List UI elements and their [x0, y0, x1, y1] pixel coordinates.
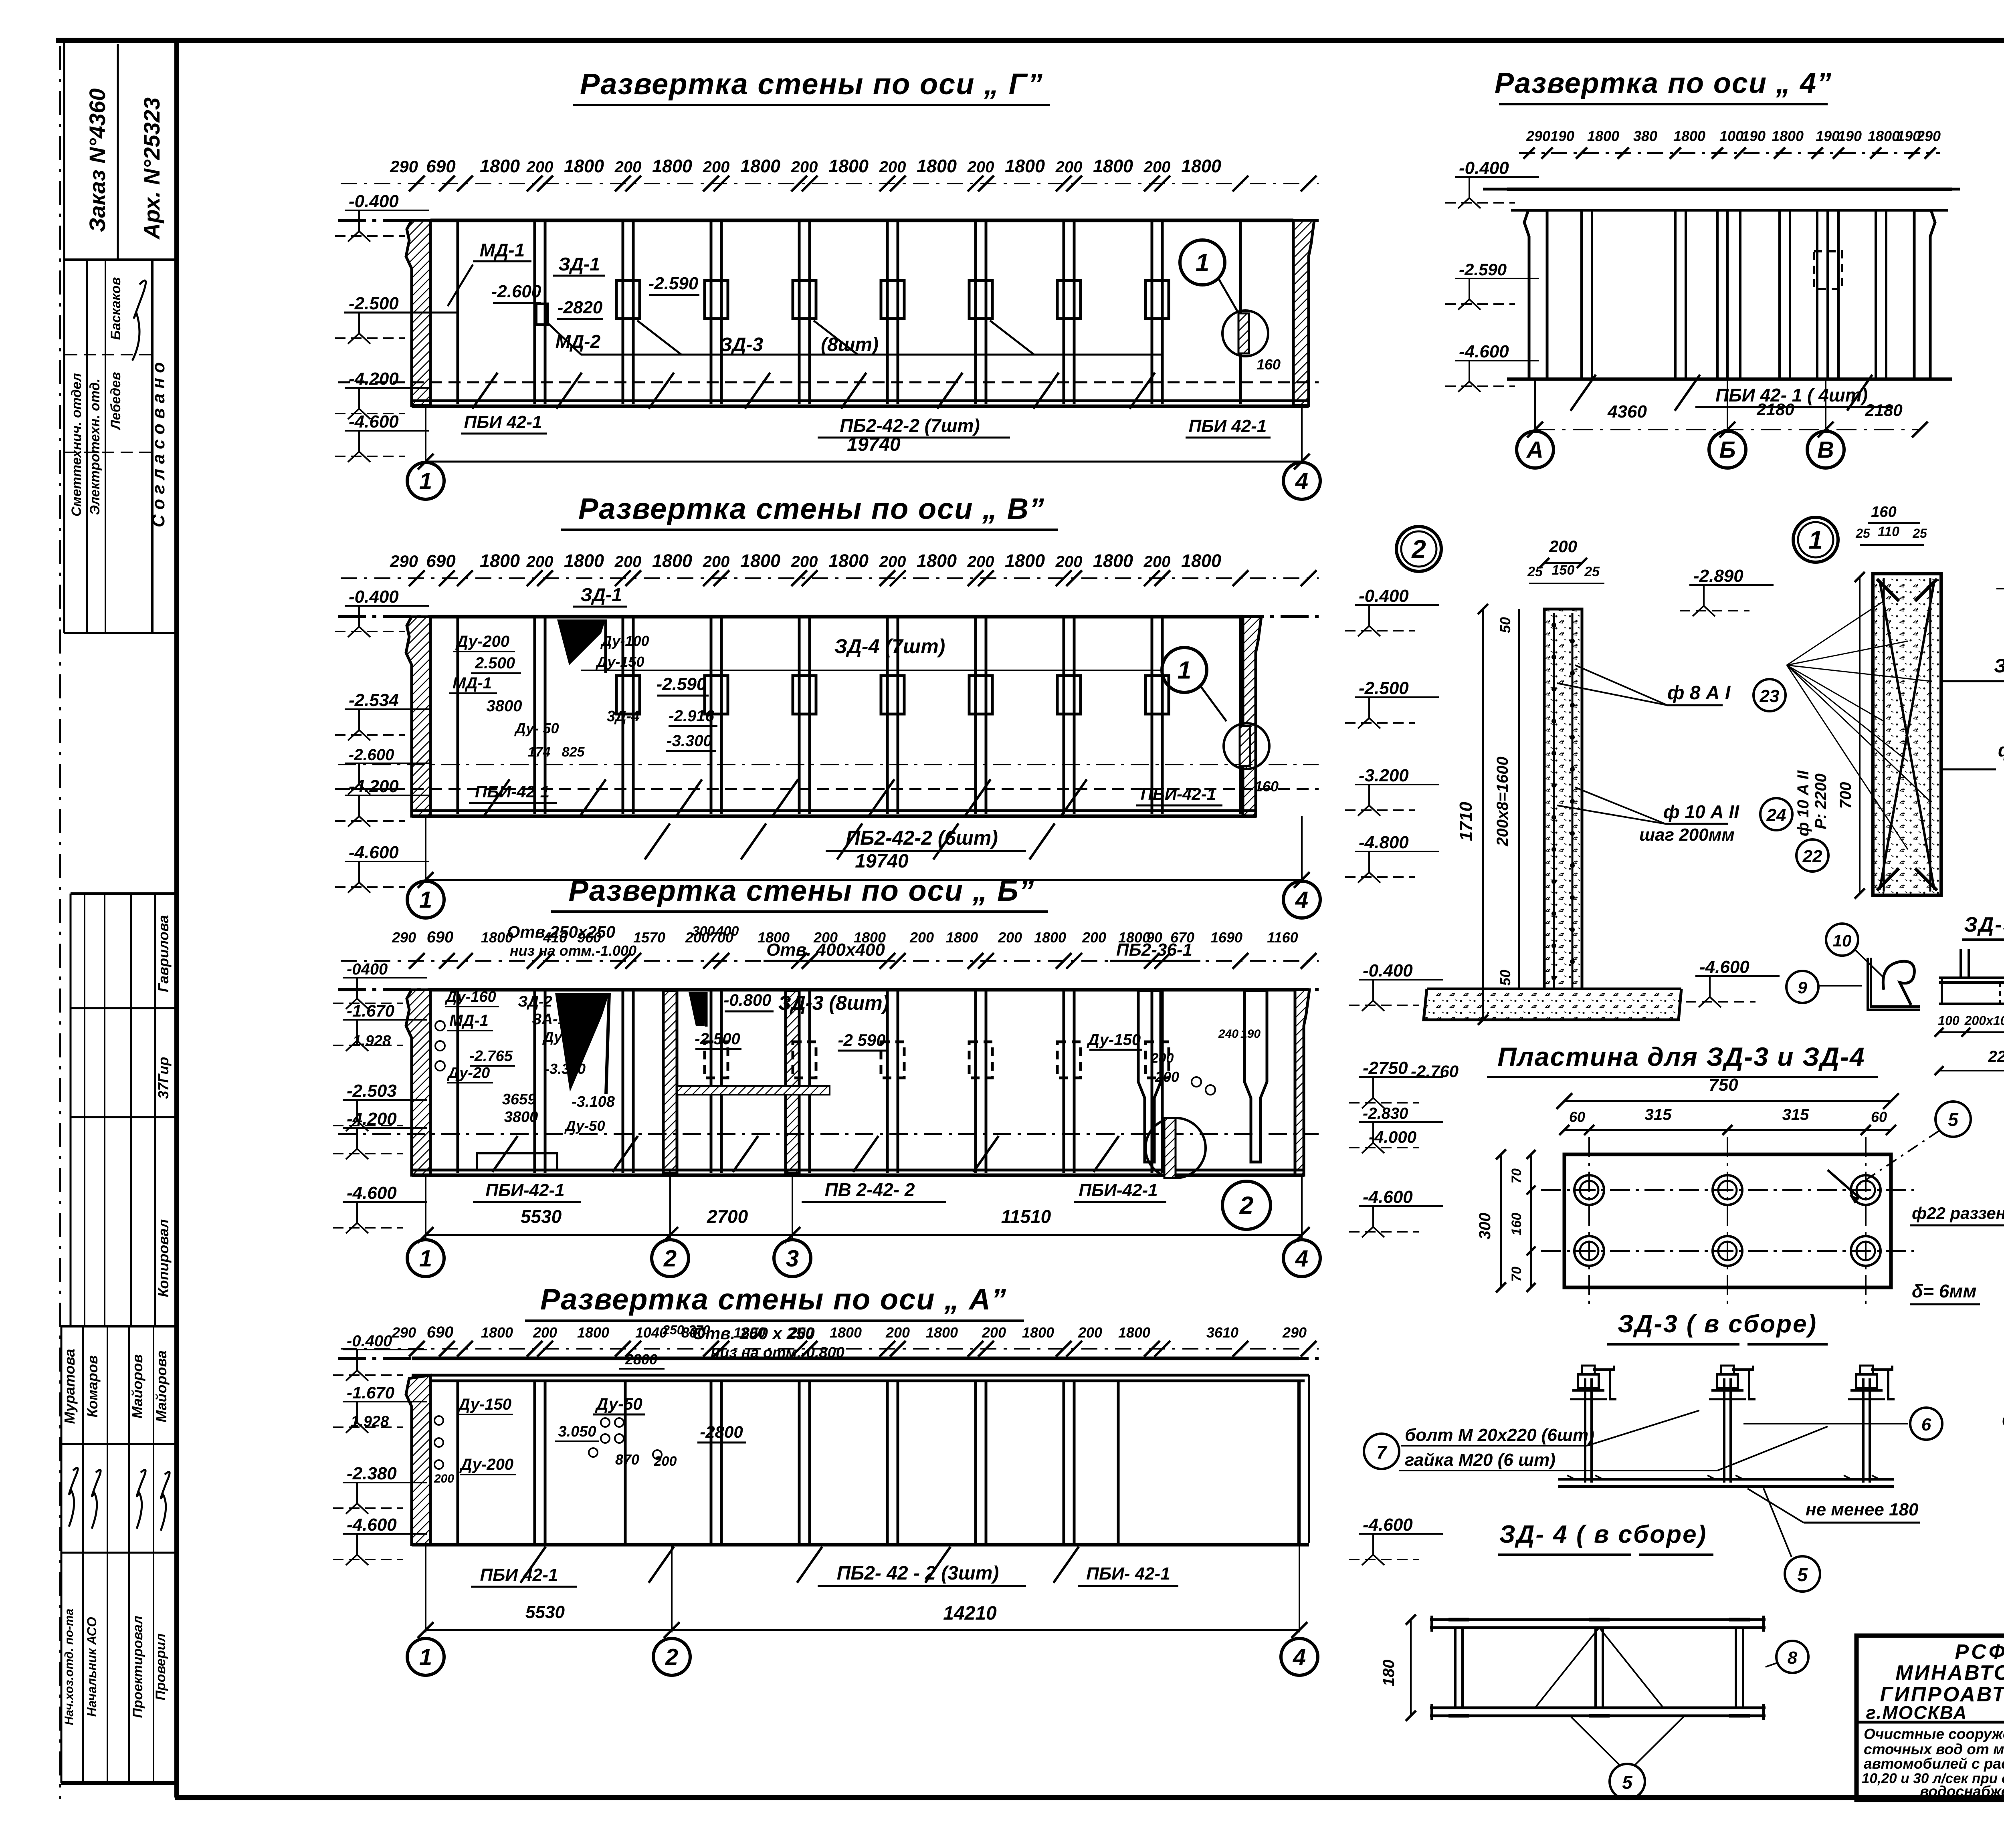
svg-text:190: 190: [1741, 128, 1766, 144]
svg-text:-4.200: -4.200: [347, 1109, 397, 1129]
svg-text:Ду-200: Ду-200: [455, 633, 509, 650]
svg-text:ЗД-1: ЗД-1: [558, 254, 600, 274]
svg-text:174: 174: [528, 744, 551, 760]
svg-text:1800: 1800: [1034, 929, 1066, 946]
svg-text:-2.890: -2.890: [1693, 566, 1743, 586]
svg-text:-2.590: -2.590: [648, 274, 699, 293]
svg-text:Комаров: Комаров: [84, 1355, 101, 1417]
svg-text:2180: 2180: [1865, 401, 1902, 420]
svg-text:Б: Б: [1719, 437, 1735, 463]
svg-text:1800: 1800: [564, 551, 604, 571]
svg-text:2: 2: [1411, 535, 1426, 563]
svg-text:-2.916: -2.916: [669, 707, 714, 725]
svg-text:ПБ2- 42 - 2 (3шт): ПБ2- 42 - 2 (3шт): [837, 1563, 999, 1584]
svg-text:1800: 1800: [1868, 128, 1900, 144]
svg-text:-4.200: -4.200: [349, 777, 399, 796]
svg-text:-2.600: -2.600: [349, 746, 394, 764]
svg-text:5: 5: [1622, 1772, 1633, 1793]
svg-text:Ду-150: Ду-150: [457, 1396, 511, 1413]
svg-text:δ= 6мм: δ= 6мм: [1912, 1281, 1976, 1301]
svg-text:-3.300: -3.300: [545, 1061, 586, 1077]
svg-text:-3.200: -3.200: [1359, 766, 1409, 785]
svg-text:Развертка стены по оси „ Б”: Развертка стены по оси „ Б”: [568, 874, 1034, 907]
svg-text:690: 690: [426, 157, 456, 176]
svg-text:Очистные сооружения для: Очистные сооружения для: [1864, 1726, 2004, 1742]
svg-text:-3.300: -3.300: [667, 732, 712, 750]
svg-text:2: 2: [665, 1644, 678, 1670]
svg-text:1800: 1800: [917, 551, 957, 571]
left stamp column: [64, 258, 175, 261]
svg-text:ПБ2-36-1: ПБ2-36-1: [1116, 940, 1192, 960]
svg-text:160: 160: [1257, 356, 1281, 373]
svg-text:3659: 3659: [502, 1091, 536, 1108]
svg-text:200: 200: [879, 553, 906, 571]
svg-text:6: 6: [1921, 1415, 1931, 1434]
svg-text:ПБИ 42-1: ПБИ 42-1: [464, 412, 542, 432]
svg-text:1800: 1800: [652, 551, 692, 571]
svg-text:200: 200: [533, 1324, 557, 1341]
svg-text:290: 290: [390, 157, 418, 176]
svg-text:ПБИ-42 1: ПБИ-42 1: [475, 782, 549, 801]
svg-text:А: А: [1526, 437, 1543, 463]
svg-text:290: 290: [392, 929, 416, 946]
svg-text:-4.600: -4.600: [347, 1515, 397, 1535]
svg-text:Ду-50: Ду-50: [595, 1394, 642, 1413]
svg-text:2180: 2180: [1756, 400, 1794, 419]
svg-text:ф 10 А II: ф 10 А II: [1663, 801, 1739, 822]
svg-text:4: 4: [1295, 1245, 1308, 1271]
svg-text:1160: 1160: [1267, 929, 1298, 946]
svg-text:Ду-20: Ду-20: [447, 1065, 490, 1081]
svg-text:ПБИ-42-1: ПБИ-42-1: [1079, 1180, 1158, 1200]
svg-text:25: 25: [1527, 564, 1543, 579]
svg-text:1: 1: [419, 468, 432, 494]
svg-text:-4.200: -4.200: [349, 369, 399, 389]
svg-text:70: 70: [1509, 1267, 1524, 1282]
svg-text:Развертка стены по оси „ В”: Развертка стены по оси „ В”: [578, 492, 1045, 525]
svg-text:-0.400: -0.400: [347, 1332, 392, 1350]
svg-text:1800: 1800: [740, 156, 780, 176]
svg-text:5530: 5530: [525, 1602, 565, 1622]
svg-text:Ду- 50: Ду- 50: [514, 720, 559, 736]
svg-text:250: 250: [662, 1323, 684, 1337]
svg-text:200: 200: [885, 1324, 910, 1341]
svg-text:200: 200: [654, 1454, 677, 1469]
svg-text:200: 200: [1055, 553, 1083, 571]
svg-text:2: 2: [663, 1245, 677, 1271]
svg-text:ф22 раззенковать: ф22 раззенковать: [1912, 1204, 2004, 1223]
ЗД-5 detail: [1826, 924, 1858, 956]
svg-text:Арх. N°25323: Арх. N°25323: [139, 97, 164, 240]
svg-text:19740: 19740: [847, 434, 901, 455]
svg-text:200: 200: [1155, 1069, 1179, 1085]
svg-text:8: 8: [1788, 1648, 1798, 1668]
title block: [1857, 1636, 2004, 1800]
svg-text:200: 200: [909, 929, 934, 946]
svg-text:24: 24: [1766, 805, 1786, 825]
svg-text:3800: 3800: [487, 697, 522, 715]
svg-text:-2.760: -2.760: [1411, 1062, 1459, 1081]
svg-text:1800: 1800: [1005, 156, 1045, 176]
svg-text:Заказ N°4360: Заказ N°4360: [85, 89, 110, 232]
svg-text:2: 2: [1239, 1192, 1253, 1220]
svg-text:Ду-160: Ду-160: [444, 989, 496, 1005]
svg-text:ПБ2-42-2 (7шт): ПБ2-42-2 (7шт): [840, 415, 980, 436]
svg-text:200: 200: [791, 158, 818, 176]
svg-text:РСФСР: РСФСР: [1955, 1640, 2004, 1664]
svg-text:1.928: 1.928: [351, 1413, 389, 1430]
svg-text:5530: 5530: [521, 1206, 562, 1227]
svg-text:-1.670: -1.670: [347, 1383, 394, 1402]
svg-text:-4.600: -4.600: [349, 412, 399, 432]
svg-text:-0.400: -0.400: [1359, 586, 1409, 606]
svg-text:50: 50: [1497, 617, 1513, 633]
svg-text:-2.590: -2.590: [1459, 260, 1507, 279]
svg-text:1570: 1570: [633, 929, 665, 946]
svg-text:700: 700: [1837, 782, 1855, 809]
svg-text:1: 1: [419, 1644, 432, 1670]
svg-text:2200: 2200: [1988, 1048, 2004, 1065]
svg-text:-4.600: -4.600: [1363, 1515, 1413, 1535]
svg-text:11510: 11510: [1001, 1206, 1051, 1227]
svg-text:200: 200: [614, 553, 642, 571]
svg-text:-0.800: -0.800: [723, 991, 771, 1009]
svg-text:3800: 3800: [504, 1109, 538, 1126]
svg-text:Начальник АСО: Начальник АСО: [85, 1617, 99, 1717]
svg-text:ЗД-4 (7шт): ЗД-4 (7шт): [834, 635, 945, 658]
svg-text:750: 750: [1709, 1075, 1738, 1095]
svg-text:Лебедев: Лебедев: [108, 372, 123, 431]
svg-text:С о г л а с о в а н о: С о г л а с о в а н о: [149, 362, 168, 527]
svg-text:1710: 1710: [1456, 802, 1476, 841]
svg-text:200: 200: [703, 158, 730, 176]
svg-text:Копировал: Копировал: [155, 1219, 172, 1297]
svg-text:200: 200: [879, 158, 906, 176]
svg-text:Майоров: Майоров: [129, 1354, 145, 1418]
svg-text:25: 25: [1584, 564, 1600, 579]
svg-text:-2750: -2750: [1363, 1058, 1408, 1078]
svg-text:1800: 1800: [1772, 128, 1804, 144]
svg-text:22: 22: [1802, 847, 1822, 866]
svg-text:1800: 1800: [564, 156, 604, 176]
svg-text:290: 290: [392, 1324, 416, 1341]
svg-text:-2.830: -2.830: [1363, 1105, 1408, 1122]
svg-text:-2.590: -2.590: [657, 674, 707, 694]
svg-text:Сметтехнич. отдел: Сметтехнич. отдел: [69, 373, 84, 516]
svg-text:690: 690: [426, 551, 456, 571]
svg-text:200: 200: [1151, 1051, 1174, 1066]
svg-text:Развертка стены по оси „ Г”: Развертка стены по оси „ Г”: [580, 67, 1043, 101]
svg-text:200: 200: [1078, 1324, 1102, 1341]
svg-text:2.500: 2.500: [475, 654, 515, 672]
svg-text:Отв. 400x400: Отв. 400x400: [766, 940, 885, 960]
svg-text:160: 160: [1509, 1213, 1524, 1236]
svg-text:-4.600: -4.600: [1699, 957, 1749, 977]
svg-text:290: 290: [1282, 1324, 1307, 1341]
svg-text:1800: 1800: [917, 156, 957, 176]
svg-text:Муратова: Муратова: [61, 1349, 78, 1424]
svg-text:Ду-200: Ду-200: [459, 1456, 513, 1473]
svg-text:290: 290: [390, 552, 418, 571]
svg-text:690: 690: [427, 1323, 454, 1341]
svg-text:-3.108: -3.108: [572, 1093, 615, 1110]
svg-text:1800: 1800: [1181, 156, 1221, 176]
svg-text:160: 160: [1871, 504, 1896, 521]
svg-text:МД-1: МД-1: [453, 674, 492, 692]
svg-text:Развертка стены по оси „ А”: Развертка стены по оси „ А”: [540, 1283, 1007, 1316]
svg-text:-2820: -2820: [558, 298, 603, 317]
svg-text:ПБИ 42-1: ПБИ 42-1: [1189, 416, 1267, 436]
svg-text:-0400: -0400: [347, 960, 388, 978]
svg-text:Баскаков: Баскаков: [108, 277, 123, 340]
svg-text:-4.800: -4.800: [1359, 833, 1409, 852]
svg-text:1800: 1800: [926, 1324, 958, 1341]
svg-text:14210: 14210: [943, 1603, 997, 1624]
svg-text:690: 690: [427, 928, 454, 946]
svg-text:автомобилей с расходом: автомобилей с расходом: [1864, 1755, 2004, 1772]
svg-text:240: 240: [1218, 1027, 1238, 1041]
svg-text:60: 60: [1569, 1109, 1585, 1125]
svg-text:водоснабжении.: водоснабжении.: [1920, 1783, 2004, 1800]
svg-text:825: 825: [562, 744, 585, 760]
svg-text:-2.500: -2.500: [1359, 678, 1409, 698]
svg-text:200х10=2000: 200х10=2000: [1964, 1013, 2004, 1028]
svg-text:г.МОСКВА: г.МОСКВА: [1866, 1702, 1967, 1723]
svg-text:100: 100: [1938, 1013, 1960, 1028]
svg-text:болт М 20х220 (6шт): болт М 20х220 (6шт): [1405, 1425, 1594, 1445]
svg-text:3610: 3610: [1206, 1324, 1238, 1341]
ЗД-4 assembled drawing: [1430, 1618, 1766, 1621]
svg-text:-4.000: -4.000: [1369, 1128, 1416, 1146]
svg-text:ЗД-3 ( в сборе): ЗД-3 ( в сборе): [1618, 1310, 1817, 1338]
svg-text:Отв. 250 x 250: Отв. 250 x 250: [692, 1324, 815, 1343]
svg-text:ПБИ-42-1: ПБИ-42-1: [1141, 785, 1216, 803]
svg-text:370: 370: [689, 1323, 710, 1337]
svg-text:2700: 2700: [707, 1206, 748, 1227]
svg-text:1800: 1800: [481, 1324, 513, 1341]
svg-text:-0.400: -0.400: [1459, 158, 1509, 178]
svg-text:37Гир: 37Гир: [155, 1057, 172, 1099]
svg-text:200: 200: [1082, 929, 1106, 946]
svg-text:1800: 1800: [946, 929, 978, 946]
svg-text:4: 4: [1293, 1644, 1306, 1670]
svg-text:ПБ2-42-2 (6шт): ПБ2-42-2 (6шт): [846, 827, 998, 849]
svg-text:870: 870: [615, 1451, 639, 1468]
svg-text:Развертка по оси „ 4”: Развертка по оси „ 4”: [1495, 67, 1832, 99]
svg-text:25: 25: [1912, 526, 1927, 541]
svg-text:200: 200: [614, 158, 642, 176]
svg-text:ЗД-5: ЗД-5: [1964, 913, 2004, 936]
svg-text:не менее 180: не менее 180: [1806, 1500, 1919, 1519]
svg-text:Проектировал: Проектировал: [130, 1616, 145, 1718]
svg-text:-2.500: -2.500: [349, 294, 399, 313]
svg-text:Нач.хоз.отд. по-та: Нач.хоз.отд. по-та: [63, 1609, 76, 1725]
svg-text:ЗД-1: ЗД-1: [580, 584, 622, 605]
svg-text:МД-2: МД-2: [556, 331, 601, 352]
svg-text:Р: 2200: Р: 2200: [1812, 773, 1830, 829]
svg-text:1800: 1800: [740, 551, 780, 571]
svg-text:3Д-4: 3Д-4: [607, 708, 640, 725]
node 1 detail ЗД-1 panel: [1793, 517, 1838, 562]
ЗД-3 assembled drawing: [1584, 1378, 1586, 1483]
svg-text:4360: 4360: [1607, 402, 1647, 422]
svg-text:200: 200: [1549, 537, 1577, 556]
svg-text:-4.600: -4.600: [1363, 1187, 1413, 1207]
svg-text:50: 50: [1497, 970, 1513, 986]
svg-text:19740: 19740: [855, 851, 909, 872]
svg-text:180: 180: [1380, 1660, 1398, 1687]
svg-text:1800: 1800: [1022, 1324, 1054, 1341]
svg-text:(8шт): (8шт): [821, 334, 879, 355]
svg-text:1800: 1800: [652, 156, 692, 176]
svg-text:1: 1: [1178, 657, 1191, 684]
svg-text:-2.600: -2.600: [491, 282, 541, 301]
svg-text:200: 200: [703, 553, 730, 571]
svg-text:-2.500: -2.500: [695, 1030, 740, 1048]
svg-text:190: 190: [1240, 1027, 1261, 1041]
svg-text:Отв.250x250: Отв.250x250: [507, 922, 616, 941]
svg-text:ф 10 А II: ф 10 А II: [1794, 770, 1812, 836]
svg-text:200: 200: [967, 553, 994, 571]
svg-text:низ на отм.-1.000: низ на отм.-1.000: [510, 942, 636, 959]
svg-text:380: 380: [1633, 128, 1657, 144]
svg-text:Ду-50: Ду-50: [564, 1118, 605, 1134]
svg-text:-2.765: -2.765: [469, 1048, 513, 1065]
svg-text:200: 200: [967, 158, 994, 176]
svg-text:60: 60: [1871, 1109, 1887, 1125]
svg-text:Пластина для ЗД-3 и ЗД-4: Пластина для ЗД-3 и ЗД-4: [1497, 1042, 1865, 1071]
svg-text:4: 4: [1295, 468, 1308, 494]
svg-text:-0.400: -0.400: [349, 192, 399, 211]
svg-text:ЗД-3: ЗД-3: [720, 334, 763, 355]
svg-text:1800: 1800: [1181, 551, 1221, 571]
svg-text:10: 10: [1833, 931, 1852, 950]
svg-text:3.050: 3.050: [558, 1423, 596, 1440]
svg-text:ПБИ-42-1: ПБИ-42-1: [485, 1180, 564, 1200]
svg-text:-0.400: -0.400: [1363, 961, 1413, 980]
svg-text:200: 200: [982, 1324, 1006, 1341]
svg-text:1800: 1800: [577, 1324, 609, 1341]
svg-text:23: 23: [1760, 686, 1780, 706]
svg-text:315: 315: [1782, 1106, 1809, 1124]
svg-text:1800: 1800: [828, 156, 869, 176]
svg-text:200x8=1600: 200x8=1600: [1494, 757, 1511, 847]
svg-text:4: 4: [1295, 887, 1308, 913]
svg-text:200: 200: [434, 1472, 454, 1485]
svg-text:МД-1: МД-1: [480, 240, 525, 260]
svg-text:ЗД-2: ЗД-2: [518, 993, 552, 1010]
svg-text:200: 200: [526, 158, 554, 176]
svg-text:1: 1: [1196, 249, 1209, 277]
svg-text:1: 1: [1808, 525, 1823, 554]
svg-text:Ду-150: Ду-150: [1087, 1031, 1141, 1049]
svg-text:ПБИ 42-1: ПБИ 42-1: [480, 1565, 558, 1585]
svg-text:70: 70: [1509, 1168, 1524, 1184]
svg-text:ЗД-3 (8шт): ЗД-3 (8шт): [778, 992, 889, 1014]
svg-text:200: 200: [1143, 553, 1171, 571]
svg-text:1800: 1800: [1005, 551, 1045, 571]
svg-text:290: 290: [1526, 128, 1550, 144]
svg-text:25: 25: [1855, 526, 1871, 541]
svg-text:3: 3: [786, 1245, 799, 1271]
svg-text:1800: 1800: [480, 551, 520, 571]
svg-text:гайка М20 (6 шт): гайка М20 (6 шт): [1405, 1450, 1556, 1470]
svg-text:шаг 200мм: шаг 200мм: [1639, 825, 1735, 845]
svg-text:-0.400: -0.400: [349, 587, 399, 607]
svg-text:1800: 1800: [480, 156, 520, 176]
svg-text:-4.600: -4.600: [1459, 342, 1509, 361]
svg-text:ЗД -5: ЗД -5: [1994, 656, 2004, 677]
svg-text:5: 5: [1948, 1109, 1959, 1130]
svg-text:В: В: [1817, 437, 1834, 463]
node circle 2 marker: [1396, 527, 1441, 571]
svg-text:300: 300: [1476, 1213, 1494, 1240]
svg-text:Гаврилова: Гаврилова: [155, 915, 172, 993]
svg-text:1800: 1800: [1587, 128, 1619, 144]
svg-text:-2.380: -2.380: [347, 1464, 397, 1483]
svg-text:150: 150: [1552, 563, 1575, 578]
svg-text:ф 8 А I: ф 8 А I: [1667, 682, 1731, 704]
svg-text:5: 5: [1797, 1564, 1808, 1585]
svg-text:200: 200: [998, 929, 1022, 946]
svg-text:ЗД- 4 ( в сборе): ЗД- 4 ( в сборе): [1499, 1521, 1707, 1548]
svg-text:190: 190: [1838, 128, 1862, 144]
sheet frame: [56, 38, 2004, 43]
svg-text:110: 110: [1878, 524, 1899, 539]
svg-text:-2.503: -2.503: [347, 1081, 397, 1101]
svg-text:160: 160: [1255, 778, 1279, 795]
svg-text:200: 200: [526, 553, 554, 571]
svg-text:1690: 1690: [1210, 929, 1242, 946]
svg-text:1800: 1800: [830, 1324, 862, 1341]
svg-text:290: 290: [1916, 128, 1941, 144]
svg-text:300: 300: [692, 924, 715, 939]
svg-text:-2.534: -2.534: [349, 690, 399, 710]
svg-text:МИНАВТОТРАНС: МИНАВТОТРАНС: [1895, 1661, 2004, 1685]
svg-text:Сводная ведомость расхода бето: Сводная ведомость расхода бетона и стали…: [2002, 1411, 2004, 1430]
svg-text:ф10 А II: ф10 А II: [1998, 740, 2004, 761]
svg-text:ПБИ- 42-1: ПБИ- 42-1: [1086, 1564, 1170, 1584]
svg-text:200: 200: [1143, 158, 1171, 176]
svg-text:190: 190: [1816, 128, 1840, 144]
svg-text:7: 7: [1376, 1442, 1388, 1463]
svg-text:190: 190: [1550, 128, 1574, 144]
svg-text:Электротехн. отд.: Электротехн. отд.: [87, 379, 103, 515]
svg-text:-2 590: -2 590: [838, 1031, 885, 1049]
svg-text:1.928: 1.928: [353, 1033, 391, 1049]
svg-text:9: 9: [1798, 978, 1807, 997]
svg-text:ПВ 2-42- 2: ПВ 2-42- 2: [825, 1179, 915, 1200]
svg-text:-4.600: -4.600: [347, 1183, 397, 1203]
svg-text:сточных вод от мойки: сточных вод от мойки: [1864, 1741, 2004, 1757]
svg-text:1800: 1800: [1093, 551, 1133, 571]
svg-text:400: 400: [716, 924, 739, 939]
svg-text:100: 100: [1719, 128, 1743, 144]
svg-text:Ду-400: Ду-400: [542, 1029, 591, 1045]
svg-text:Проверил: Проверил: [153, 1633, 168, 1700]
svg-text:-1.670: -1.670: [347, 1001, 394, 1020]
svg-text:200: 200: [1055, 158, 1083, 176]
svg-text:Майорова: Майорова: [153, 1350, 170, 1422]
svg-text:низ на отм.-0.800: низ на отм.-0.800: [711, 1344, 844, 1361]
svg-text:1800: 1800: [1118, 1324, 1150, 1341]
svg-text:315: 315: [1645, 1106, 1672, 1124]
svg-text:1: 1: [419, 887, 432, 913]
svg-text:Ду-100: Ду-100: [600, 633, 649, 649]
svg-text:ЗА-1: ЗА-1: [532, 1011, 566, 1028]
svg-text:1800: 1800: [828, 551, 869, 571]
svg-text:2800: 2800: [625, 1351, 657, 1368]
